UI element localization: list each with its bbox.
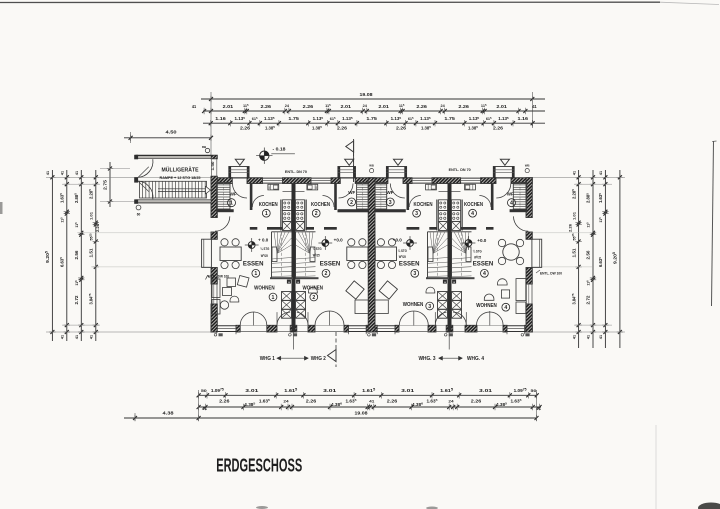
svg-text:KOCHEN: KOCHEN	[311, 202, 330, 208]
svg-text:2.72: 2.72	[586, 295, 591, 305]
svg-text:24: 24	[448, 400, 454, 404]
svg-text:WF: WF	[387, 190, 394, 195]
svg-text:3.01: 3.01	[401, 388, 415, 393]
svg-text:2.26: 2.26	[458, 104, 469, 109]
svg-text:1.635: 1.635	[427, 398, 438, 403]
svg-text:615: 615	[408, 116, 414, 121]
svg-text:4.38: 4.38	[163, 411, 175, 416]
svg-text:1.135: 1.135	[391, 116, 402, 121]
svg-text:1.615: 1.615	[284, 387, 297, 392]
svg-text:41: 41	[61, 335, 65, 339]
svg-text:1: 1	[230, 201, 233, 207]
svg-text:WOHNEN: WOHNEN	[303, 285, 324, 291]
svg-text:1.51: 1.51	[571, 248, 576, 258]
svg-text:2.26: 2.26	[303, 104, 314, 109]
svg-text:2.26: 2.26	[396, 125, 407, 130]
svg-text:1.615: 1.615	[362, 387, 375, 392]
svg-text:2: 2	[315, 211, 318, 217]
svg-text:115: 115	[74, 222, 79, 228]
svg-text:+0.0: +0.0	[477, 238, 487, 243]
svg-text:1.385: 1.385	[265, 125, 275, 130]
svg-text:1: 1	[265, 211, 268, 217]
svg-text:41: 41	[572, 335, 576, 339]
svg-text:2.885: 2.885	[585, 193, 590, 203]
svg-text:1.51: 1.51	[89, 248, 94, 258]
svg-text:41: 41	[202, 407, 207, 411]
svg-text:WHG 1: WHG 1	[260, 356, 275, 362]
svg-text:2.72: 2.72	[74, 295, 79, 305]
svg-text:1.635: 1.635	[511, 398, 522, 403]
svg-text:4.386: 4.386	[331, 401, 342, 406]
svg-text:+0.0: +0.0	[334, 238, 344, 243]
svg-text:41: 41	[61, 171, 65, 175]
svg-text:6.635: 6.635	[59, 257, 64, 267]
svg-text:115: 115	[243, 103, 249, 108]
svg-text:ENTL. DN 70: ENTL. DN 70	[285, 170, 307, 174]
svg-text:3: 3	[413, 271, 416, 277]
svg-text:WHG 2: WHG 2	[311, 356, 326, 362]
svg-text:ENTL. DW 100: ENTL. DW 100	[540, 272, 562, 276]
svg-text:41: 41	[587, 335, 591, 339]
svg-text:3: 3	[428, 304, 431, 310]
svg-text:2.26: 2.26	[471, 399, 482, 404]
svg-text:WHG. 3: WHG. 3	[419, 356, 436, 362]
svg-text:3.8475: 3.8475	[571, 293, 576, 304]
svg-text:W5/25: W5/25	[261, 254, 268, 258]
svg-text:MÜLL/GERÄTE: MÜLL/GERÄTE	[162, 167, 199, 174]
svg-text:2.01: 2.01	[378, 104, 389, 109]
svg-text:ESSEN: ESSEN	[473, 262, 494, 268]
svg-text:1.135: 1.135	[498, 116, 509, 121]
svg-text:115: 115	[598, 217, 603, 223]
svg-text:1.635: 1.635	[598, 193, 603, 203]
svg-text:5525: 5525	[571, 233, 576, 241]
svg-text:41: 41	[46, 171, 50, 175]
svg-text:615: 615	[486, 116, 492, 121]
svg-text:41: 41	[572, 171, 576, 175]
svg-text:4: 4	[471, 211, 474, 217]
svg-text:3: 3	[389, 200, 392, 206]
svg-text:2.26: 2.26	[493, 125, 504, 130]
svg-text:W5/25: W5/25	[474, 256, 481, 260]
svg-text:3.01: 3.01	[245, 388, 259, 393]
svg-text:KOCHEN: KOCHEN	[259, 202, 278, 208]
svg-text:1.135: 1.135	[342, 116, 353, 121]
svg-text:ESSEN: ESSEN	[399, 262, 420, 268]
svg-text:1.135: 1.135	[313, 116, 324, 121]
svg-text:WB: WB	[525, 164, 530, 168]
svg-text:2.285: 2.285	[88, 189, 93, 199]
svg-text:2.56: 2.56	[74, 250, 79, 260]
svg-text:3.8475: 3.8475	[88, 293, 93, 304]
svg-text:1.635: 1.635	[59, 193, 64, 203]
svg-text:1.135: 1.135	[264, 116, 275, 121]
svg-text:1.0975: 1.0975	[211, 387, 224, 392]
svg-text:60: 60	[137, 213, 141, 217]
svg-text:2.26: 2.26	[240, 125, 251, 130]
svg-text:WB: WB	[369, 164, 374, 168]
svg-text:2.26: 2.26	[261, 104, 272, 109]
svg-text:ENTL. DW 100: ENTL. DW 100	[208, 275, 229, 279]
svg-text:+0.0: +0.0	[393, 238, 403, 243]
svg-text:- 0.18: - 0.18	[273, 147, 287, 152]
svg-text:115: 115	[481, 103, 487, 108]
svg-text:ESSEN: ESSEN	[243, 262, 264, 268]
svg-text:41: 41	[90, 335, 94, 339]
svg-text:24: 24	[363, 104, 368, 108]
svg-text:50: 50	[201, 388, 208, 393]
svg-text:4.50: 4.50	[166, 130, 177, 136]
svg-text:1.50: 1.50	[211, 162, 215, 171]
svg-text:1: 1	[272, 295, 275, 301]
svg-text:615: 615	[252, 116, 258, 121]
svg-text:2.885: 2.885	[74, 193, 79, 203]
svg-text:WOHNEN: WOHNEN	[476, 303, 497, 309]
svg-text:1.135: 1.135	[420, 116, 431, 121]
svg-text:9.205: 9.205	[612, 252, 617, 264]
svg-text:1.135: 1.135	[469, 116, 480, 121]
svg-text:4: 4	[504, 305, 507, 311]
svg-text:1.16: 1.16	[215, 116, 226, 121]
svg-text:W5/25: W5/25	[313, 253, 320, 257]
svg-text:RAMPE + 12 STG 18/25: RAMPE + 12 STG 18/25	[160, 176, 201, 180]
svg-text:1.385: 1.385	[468, 125, 478, 130]
svg-text:2.01: 2.01	[496, 104, 507, 109]
svg-text:+ 0.0: + 0.0	[258, 238, 269, 243]
svg-text:1.75: 1.75	[366, 116, 377, 121]
svg-text:19.08: 19.08	[360, 92, 373, 98]
svg-text:115: 115	[586, 222, 591, 228]
svg-text:1.385: 1.385	[421, 125, 431, 130]
svg-text:2.26: 2.26	[306, 399, 317, 404]
svg-text:1.01: 1.01	[571, 211, 576, 220]
svg-text:1.385: 1.385	[312, 125, 322, 130]
svg-text:1.635: 1.635	[259, 398, 270, 403]
svg-text:116: 116	[586, 280, 591, 286]
svg-text:3.01: 3.01	[323, 388, 337, 393]
svg-text:WF: WF	[507, 191, 514, 196]
svg-text:WOHNEN: WOHNEN	[403, 302, 424, 308]
svg-text:KOCHEN: KOCHEN	[464, 202, 483, 208]
svg-text:9.205: 9.205	[45, 251, 50, 263]
svg-text:2.26: 2.26	[416, 104, 427, 109]
svg-text:41: 41	[532, 104, 537, 109]
svg-text:24: 24	[283, 400, 289, 404]
svg-text:2: 2	[325, 271, 328, 277]
svg-text:W5/25: W5/25	[399, 255, 406, 259]
svg-text:KOCHEN: KOCHEN	[414, 202, 433, 208]
svg-text:41: 41	[599, 171, 603, 175]
svg-text:WOHNEN: WOHNEN	[254, 285, 275, 291]
svg-text:2.285: 2.285	[571, 189, 576, 199]
svg-text:41: 41	[192, 104, 197, 109]
svg-text:1.0975: 1.0975	[514, 387, 527, 392]
svg-text:115: 115	[325, 103, 331, 108]
svg-text:4.385: 4.385	[244, 401, 255, 406]
svg-text:2.26: 2.26	[569, 224, 573, 232]
svg-text:2.26: 2.26	[337, 125, 348, 130]
svg-text:1.75: 1.75	[444, 116, 455, 121]
svg-text:ERDGESCHOSS: ERDGESCHOSS	[216, 455, 302, 476]
svg-text:115: 115	[59, 217, 64, 223]
svg-text:4.386: 4.386	[412, 401, 423, 406]
svg-text:4.385: 4.385	[496, 401, 507, 406]
svg-text:2: 2	[312, 295, 315, 301]
svg-text:¼ STG: ¼ STG	[260, 247, 269, 251]
svg-text:6.635: 6.635	[598, 257, 603, 267]
svg-text:2.26: 2.26	[219, 399, 230, 404]
svg-text:1.135: 1.135	[235, 116, 246, 121]
svg-text:2.56: 2.56	[586, 250, 591, 260]
svg-text:2.01: 2.01	[223, 104, 234, 109]
svg-text:24: 24	[285, 104, 290, 108]
svg-text:2.75: 2.75	[103, 179, 108, 190]
svg-text:19.08: 19.08	[355, 411, 368, 417]
svg-text:1: 1	[254, 271, 257, 277]
svg-text:1.01: 1.01	[89, 211, 94, 220]
svg-text:615: 615	[330, 116, 336, 121]
svg-text:ENTL. DN 70: ENTL. DN 70	[449, 168, 471, 172]
svg-text:41: 41	[369, 400, 374, 404]
svg-text:1.16: 1.16	[518, 116, 529, 121]
svg-text:2.01: 2.01	[341, 104, 352, 109]
svg-text:WF: WF	[230, 191, 237, 196]
svg-text:2.26: 2.26	[96, 224, 100, 232]
svg-text:5525: 5525	[88, 233, 93, 241]
svg-text:¼ STG: ¼ STG	[473, 250, 482, 254]
svg-text:WHG. 4: WHG. 4	[467, 356, 484, 362]
svg-text:116: 116	[74, 280, 79, 286]
svg-text:115: 115	[399, 103, 405, 108]
svg-text:2.26: 2.26	[387, 399, 398, 404]
svg-text:41: 41	[599, 335, 603, 339]
svg-text:1.635: 1.635	[346, 398, 357, 403]
svg-text:WF: WF	[348, 190, 355, 195]
svg-text:¼ STG: ¼ STG	[313, 247, 322, 251]
svg-text:3.01: 3.01	[479, 388, 493, 393]
svg-text:1.615: 1.615	[440, 387, 453, 392]
svg-text:4: 4	[510, 201, 513, 207]
svg-text:ESSEN: ESSEN	[320, 262, 341, 268]
svg-text:1.75: 1.75	[288, 116, 299, 121]
svg-text:4: 4	[483, 271, 486, 277]
svg-text:41: 41	[75, 335, 79, 339]
svg-text:41: 41	[75, 171, 79, 175]
svg-text:¼ STG: ¼ STG	[398, 249, 407, 253]
svg-text:2: 2	[350, 200, 353, 206]
svg-text:3: 3	[415, 211, 418, 217]
svg-text:24: 24	[440, 104, 445, 108]
